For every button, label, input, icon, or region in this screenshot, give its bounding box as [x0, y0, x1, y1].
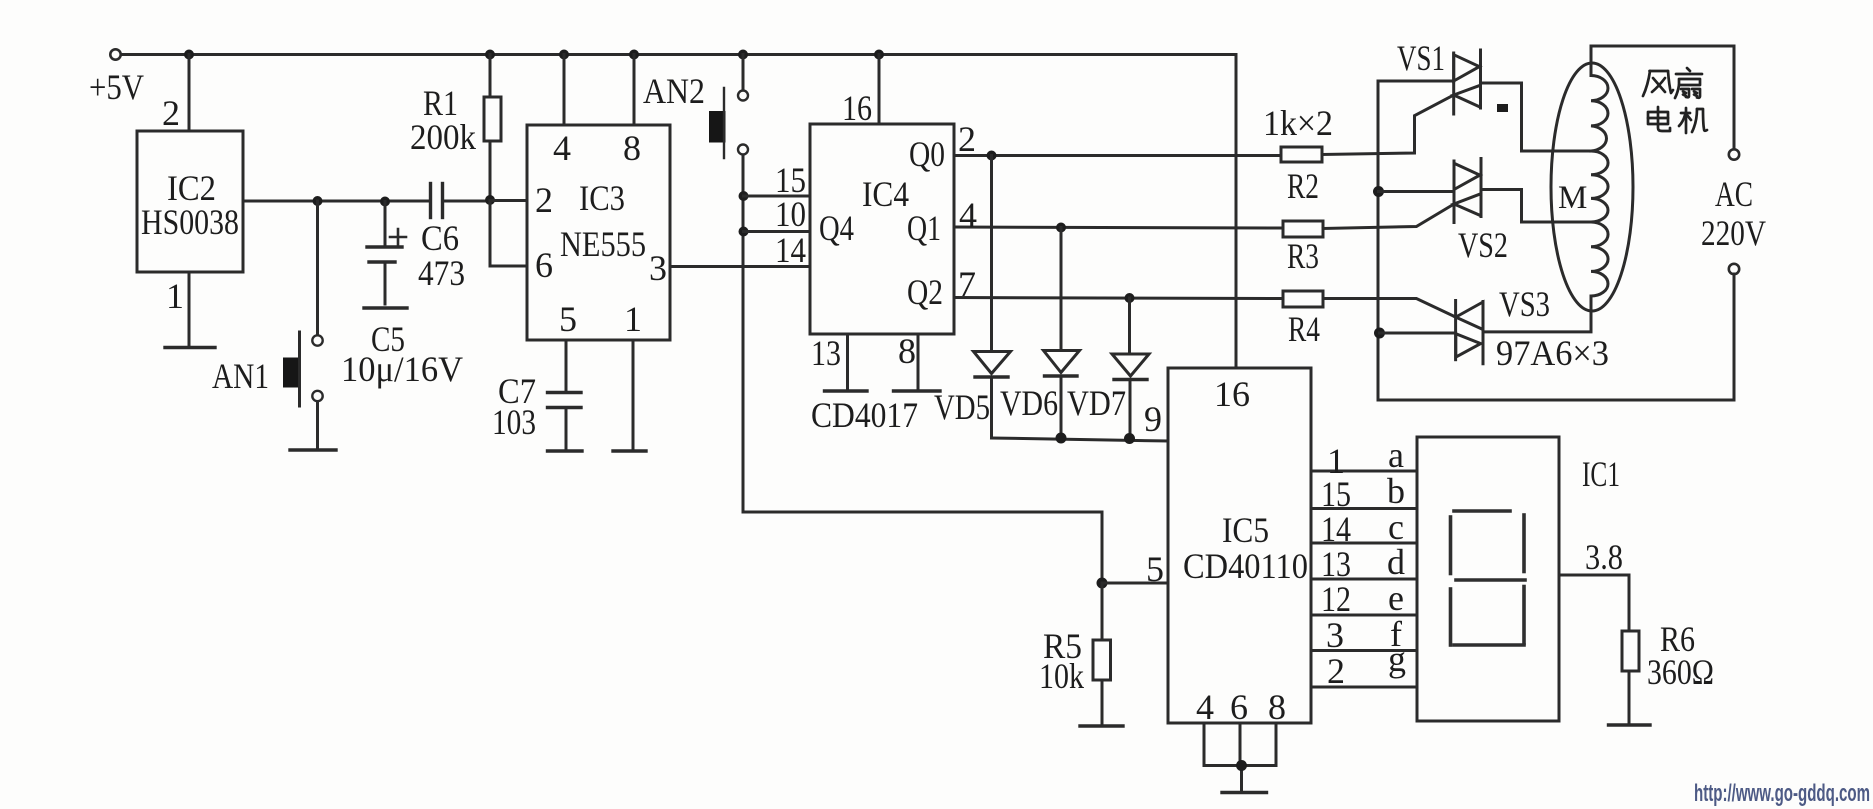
wire AN2 down run to IC5 pin5: [743, 155, 1102, 583]
svg-text:R2: R2: [1287, 166, 1319, 206]
triac VS1: [1454, 50, 1481, 114]
wire IC2 output to C6: [243, 200, 430, 203]
ground IC3 pin1: [613, 449, 646, 452]
ground AN1: [290, 448, 336, 451]
svg-text:16: 16: [1214, 374, 1250, 414]
display IC1 box: [1417, 437, 1559, 721]
resistor R4: [1283, 291, 1323, 307]
svg-text:14: 14: [775, 230, 806, 270]
svg-text:VD7: VD7: [1067, 383, 1126, 423]
wire VS3 MT1: [1380, 332, 1456, 335]
svg-text:4: 4: [959, 195, 977, 235]
junction IC5 pin5 / R5: [1097, 578, 1108, 589]
svg-text:IC3: IC3: [579, 178, 625, 218]
svg-text:3: 3: [1326, 615, 1344, 655]
node +5V terminal: [110, 49, 120, 59]
ground R6: [1609, 723, 1651, 726]
resistor R2 1k: [1281, 147, 1322, 162]
diode VD6: [1044, 228, 1080, 439]
junction bus-VS2: [1373, 186, 1384, 197]
wire VS2 MT1: [1379, 190, 1455, 193]
wire VS1 MT2 to motor tap A: [1481, 83, 1592, 151]
ground C5: [364, 306, 407, 309]
svg-text:1k×2: 1k×2: [1263, 103, 1333, 143]
counter IC5 CD40110 box: [1168, 368, 1311, 723]
svg-text:a: a: [1388, 435, 1404, 475]
ground R5: [1080, 724, 1123, 727]
wire IC5 pins 4 6 8 to ground: [1204, 723, 1276, 790]
svg-text:AC: AC: [1715, 174, 1753, 214]
junction AN2-IC4 pin15: [739, 191, 749, 201]
svg-text:2: 2: [162, 93, 180, 133]
svg-text:IC1: IC1: [1582, 454, 1620, 494]
junction Q1-VD6: [1056, 223, 1066, 233]
ground IC5: [1222, 791, 1267, 794]
svg-text:8: 8: [623, 128, 641, 168]
svg-text:2: 2: [1327, 651, 1345, 691]
junction IC5 ground node: [1236, 760, 1247, 771]
junction Q2-VD7: [1125, 293, 1135, 303]
wire node to IC3 pin6: [490, 201, 527, 267]
char feng (wind): [1643, 71, 1673, 96]
svg-text:1: 1: [166, 276, 184, 316]
svg-text:1: 1: [624, 299, 642, 339]
wire IC3 pin8: [633, 55, 636, 126]
wire IC5 seg d: [1311, 578, 1417, 581]
motor coil 2: [1591, 151, 1608, 222]
wire IC5 seg f: [1311, 649, 1417, 652]
wire R2 line to VS1 gate: [1322, 95, 1454, 155]
svg-text:VD6: VD6: [1000, 383, 1058, 423]
capacitor C7 103: [548, 393, 582, 450]
wire IC3 pin3 to IC4 pin14: [670, 265, 810, 268]
svg-text:M: M: [1558, 180, 1587, 216]
push-button AN2: [709, 88, 748, 158]
svg-text:NE555: NE555: [560, 224, 646, 264]
char ji (machine): [1679, 108, 1707, 133]
svg-text:VS1: VS1: [1397, 38, 1445, 78]
wire VS2 MT2 to motor tap B: [1481, 190, 1591, 223]
ground C7: [548, 449, 583, 452]
svg-text:473: 473: [418, 253, 465, 293]
svg-text:VS3: VS3: [1499, 284, 1550, 324]
svg-text:Q2: Q2: [907, 272, 943, 312]
wire IC1 pin3.8 to R6: [1559, 575, 1629, 631]
ground IC2: [165, 346, 215, 349]
svg-text:200k: 200k: [410, 117, 476, 157]
diode VD7: [1112, 298, 1149, 439]
wire IC5 seg e: [1311, 614, 1417, 617]
wire AN2 from rail: [742, 55, 745, 91]
svg-text:12: 12: [1321, 579, 1351, 619]
junction rail-AN2: [738, 50, 748, 60]
resistor R5 10k: [1093, 583, 1111, 723]
svg-text:8: 8: [898, 331, 916, 371]
wire IC5 seg c: [1311, 542, 1417, 545]
svg-text:g: g: [1388, 639, 1406, 679]
svg-text:Q4: Q4: [819, 208, 854, 248]
svg-text:2: 2: [958, 119, 976, 159]
svg-text:Q0: Q0: [909, 134, 945, 174]
svg-text:3: 3: [649, 248, 667, 288]
wire AN1 branch: [316, 201, 319, 335]
node AC bottom terminal: [1729, 264, 1739, 274]
wire AC bottom to bus: [1378, 274, 1734, 400]
junction VD7-bus: [1124, 433, 1135, 444]
svg-text:d: d: [1387, 542, 1405, 582]
svg-text:4: 4: [553, 128, 571, 168]
char shan (fan): [1675, 68, 1702, 98]
wire AC left bus: [1378, 81, 1454, 400]
svg-text:220V: 220V: [1701, 213, 1766, 253]
junction R1-C6-IC3 node: [485, 195, 495, 205]
svg-text:9: 9: [1144, 399, 1162, 439]
svg-text:6: 6: [1230, 687, 1248, 727]
svg-text:VS2: VS2: [1458, 225, 1508, 265]
op-amp IC2 HS0038 box: [137, 131, 243, 272]
label fan motor chinese: [1643, 68, 1707, 133]
capacitor C6 473: [431, 184, 488, 218]
svg-text:b: b: [1387, 471, 1405, 511]
wire R3 line to VS2 gate: [1323, 204, 1454, 229]
ground IC4 pin13: [825, 389, 868, 392]
wire VS3 MT2 to motor winding bottom: [1483, 296, 1591, 332]
push-button AN1: [283, 332, 323, 406]
svg-text:C6: C6: [421, 218, 459, 258]
wire to IC4 pin15: [744, 195, 811, 198]
svg-text:14: 14: [1321, 509, 1351, 549]
diode VD5: [974, 156, 1011, 439]
node AC top terminal: [1729, 149, 1739, 159]
svg-text:3.8: 3.8: [1585, 537, 1623, 577]
svg-text:Q1: Q1: [907, 208, 941, 248]
wire IC5 seg g: [1311, 686, 1417, 689]
svg-text:103: 103: [492, 402, 536, 442]
svg-text:8: 8: [1268, 687, 1286, 727]
svg-text:6: 6: [535, 245, 553, 285]
wire IC4 Q1 pin4 line: [954, 227, 1283, 228]
junction C5 tap: [380, 197, 390, 207]
junction AN2-IC4 pin10: [739, 227, 749, 237]
wire IC2 pin2: [188, 55, 191, 132]
wire motor top to AC terminal: [1591, 46, 1734, 150]
wire IC2 pin1 to ground: [188, 272, 191, 347]
wire IC5 seg b: [1311, 507, 1417, 510]
wire R4 line to VS3 gate: [1323, 299, 1456, 318]
svg-text:http://www.go-gddq.com: http://www.go-gddq.com: [1694, 780, 1870, 807]
svg-text:5: 5: [559, 299, 577, 339]
wire IC4 pin16: [878, 55, 881, 125]
svg-text:CD40110: CD40110: [1183, 546, 1308, 586]
dirt mark: [1497, 104, 1508, 112]
svg-text:2: 2: [535, 180, 553, 220]
svg-text:5: 5: [1146, 549, 1164, 589]
junction rail-IC4 pin16: [874, 50, 884, 60]
svg-text:CD4017: CD4017: [811, 395, 918, 435]
triac VS3: [1456, 301, 1483, 364]
motor winding top lead: [1590, 46, 1593, 76]
junction rail-R1: [485, 50, 495, 60]
svg-text:e: e: [1388, 578, 1404, 618]
resistor R3 1k: [1283, 221, 1323, 237]
junction rail-IC3 pin4: [559, 50, 569, 60]
wire pin5 to IC5: [1102, 582, 1168, 585]
svg-text:7: 7: [958, 264, 976, 304]
svg-text:AN2: AN2: [643, 71, 705, 111]
wire node to IC3 pin2: [490, 199, 527, 202]
svg-text:+5V: +5V: [89, 67, 144, 107]
motor coil 3: [1591, 222, 1608, 296]
timer IC3 NE555 box: [527, 125, 670, 340]
junction rail-IC3 pin8: [629, 50, 639, 60]
svg-text:97A6×3: 97A6×3: [1496, 333, 1609, 373]
ground IC4 pin8: [894, 389, 941, 392]
svg-text:4: 4: [1196, 687, 1214, 727]
motor coil 1: [1591, 76, 1608, 152]
svg-text:15: 15: [1321, 474, 1351, 514]
capacitor C5 10u/16V: [367, 202, 406, 305]
wire IC4 Q2 pin7 line: [954, 298, 1283, 299]
resistor R6 360ohm: [1622, 631, 1639, 723]
svg-text:13: 13: [811, 333, 841, 373]
wire IC4 pin13 to ground: [846, 334, 849, 389]
svg-text:c: c: [1388, 507, 1404, 547]
junction rail-IC2: [184, 50, 194, 60]
counter IC4 CD4017 box: [810, 124, 954, 334]
svg-text:R4: R4: [1288, 309, 1320, 349]
wire to IC4 pin10: [744, 230, 811, 233]
svg-text:360Ω: 360Ω: [1647, 652, 1714, 692]
wire IC3 pin4: [563, 55, 566, 126]
char dian (electric): [1648, 107, 1670, 131]
svg-text:HS0038: HS0038: [141, 202, 239, 242]
wire IC4 pin8 to ground: [917, 334, 920, 389]
wire AN1 to ground: [316, 402, 319, 449]
svg-text:10k: 10k: [1039, 656, 1084, 696]
junction AN1 tap: [313, 196, 323, 206]
resistor R1 200k: [484, 55, 501, 201]
junction bus-VS3: [1374, 328, 1385, 339]
svg-text:13: 13: [1321, 544, 1351, 584]
wire rail to IC5 pin16 vertical: [1235, 55, 1238, 369]
svg-text:IC4: IC4: [862, 174, 909, 214]
wire +5V top rail: [121, 53, 1236, 56]
svg-text:R3: R3: [1287, 236, 1319, 276]
svg-text:AN1: AN1: [212, 356, 269, 396]
svg-text:10μ/16V: 10μ/16V: [341, 349, 463, 389]
junction VD6-bus: [1056, 433, 1067, 444]
svg-text:10: 10: [775, 194, 806, 234]
svg-text:16: 16: [842, 88, 872, 128]
motor ellipse: [1551, 63, 1633, 311]
wire IC3 pin5 to C7: [565, 340, 568, 393]
seven-segment digit: [1451, 511, 1526, 645]
svg-text:IC5: IC5: [1222, 510, 1269, 550]
triac VS2: [1454, 159, 1481, 223]
wire diode bus to IC5 pin9: [992, 438, 1169, 441]
wire IC5 seg a: [1311, 470, 1417, 473]
wire IC4 Q0 pin2 line: [954, 154, 1281, 157]
svg-text:VD5: VD5: [934, 387, 990, 427]
wire IC3 pin1 to ground: [632, 340, 635, 449]
junction Q0-VD5: [987, 151, 997, 161]
